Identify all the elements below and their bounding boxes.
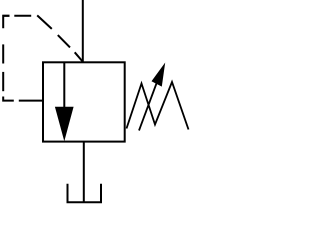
spring (zigzag) (127, 82, 189, 130)
tank symbol T (67, 184, 103, 202)
inlet line P (wire, top) (82, 0, 84, 62)
adjustment arrow across spring (139, 63, 165, 131)
pilot line diagonal (dashed) to inlet node (37, 15, 82, 61)
pilot line left vertical (dashed) (3, 16, 9, 91)
pilot line top horizontal (dashed) (3, 15, 32, 17)
flow path arrow (closed position, offset) (55, 62, 74, 141)
outlet line to tank (wire, bottom) (83, 142, 85, 203)
valve body U1 (square envelope) (43, 62, 125, 141)
pilot line bottom horizontal (dashed) to valve left side (3, 97, 43, 101)
